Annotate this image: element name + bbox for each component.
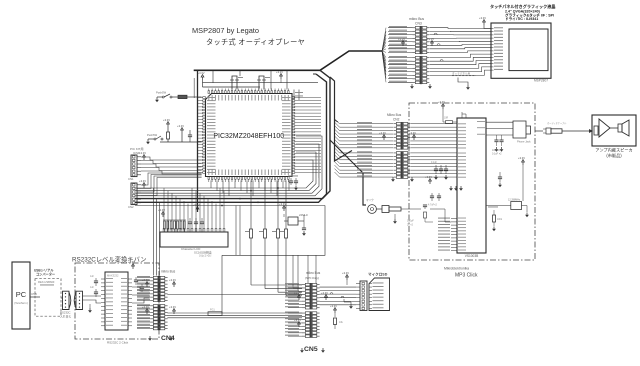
svg-text:+3.3V: +3.3V — [163, 118, 170, 122]
svg-text:ドライバIC : ILI9341: ドライバIC : ILI9341 — [505, 16, 538, 21]
svg-text:MAX3232: MAX3232 — [107, 274, 119, 278]
svg-text:+3.3V: +3.3V — [342, 271, 349, 275]
svg-text:100k: 100k — [497, 219, 503, 221]
svg-text:10R: 10R — [444, 118, 449, 120]
svg-text:+3.3V: +3.3V — [276, 70, 283, 74]
svg-text:100pF: 100pF — [407, 220, 414, 223]
svg-text:16文字×2行: 16文字×2行 — [199, 254, 212, 258]
svg-text:FG1: FG1 — [210, 309, 215, 312]
svg-text:+3.3V: +3.3V — [169, 305, 176, 309]
svg-text:Phone Jack: Phone Jack — [517, 140, 531, 144]
svg-text:0.1uF ×2: 0.1uF ×2 — [492, 153, 502, 156]
svg-text:0.1uF: 0.1uF — [431, 162, 437, 164]
svg-text:(市販品): (市販品) — [606, 152, 622, 159]
svg-text:+3.3V: +3.3V — [425, 175, 432, 179]
svg-text:マイクロSD: マイクロSD — [368, 272, 388, 277]
svg-text:RS232C 2 Click: RS232C 2 Click — [107, 341, 129, 345]
svg-text:+3.3V: +3.3V — [139, 151, 146, 155]
svg-text:+3.3V: +3.3V — [177, 124, 184, 128]
svg-text:REX-USB60F: REX-USB60F — [38, 280, 55, 284]
svg-text:入れ替え: 入れ替え — [60, 315, 71, 319]
svg-text:+3.3V: +3.3V — [379, 131, 386, 135]
svg-text:+3.3V: +3.3V — [142, 305, 149, 309]
svg-text:24MHz: 24MHz — [299, 213, 308, 217]
svg-text:2k ×2: 2k ×2 — [407, 224, 414, 227]
svg-text:MikroElektronika: MikroElektronika — [444, 267, 469, 271]
svg-text:CN5: CN5 — [304, 346, 318, 353]
svg-text:マイク: マイク — [366, 198, 374, 202]
svg-text:mikro Bus: mikro Bus — [409, 17, 424, 21]
svg-text:mikro Bus: mikro Bus — [161, 270, 176, 274]
svg-text:コンバーター: コンバーター — [36, 272, 55, 277]
svg-text:mikro Bus: mikro Bus — [306, 271, 321, 275]
svg-text:CN4: CN4 — [161, 335, 175, 342]
svg-text:PIC32MZ2048EFH100: PIC32MZ2048EFH100 — [213, 133, 284, 140]
svg-text:+3.3V: +3.3V — [198, 71, 205, 75]
svg-text:CN2: CN2 — [128, 205, 134, 209]
svg-text:Mikro Bus: Mikro Bus — [387, 113, 402, 117]
svg-text:1uF: 1uF — [90, 287, 95, 289]
svg-text:+3.3V: +3.3V — [479, 16, 486, 20]
svg-text:MSP2807 by Legato: MSP2807 by Legato — [192, 26, 259, 35]
svg-text:+3.3V: +3.3V — [294, 318, 301, 322]
svg-text:CN1: CN1 — [128, 177, 134, 181]
svg-text:+3.3V: +3.3V — [169, 278, 176, 282]
svg-text:1uF: 1uF — [90, 276, 95, 278]
svg-text:+3.3V: +3.3V — [409, 131, 416, 135]
svg-text:+3.3V: +3.3V — [518, 156, 525, 160]
svg-text:+3.3V: +3.3V — [438, 100, 445, 104]
svg-text:+3.3V: +3.3V — [330, 304, 337, 308]
svg-text:USB: USB — [31, 292, 37, 296]
svg-text:12.288MHz: 12.288MHz — [508, 199, 521, 202]
svg-text:+3.3V: +3.3V — [398, 37, 405, 41]
svg-text:PushSW: PushSW — [147, 133, 158, 137]
svg-text:+3.3V: +3.3V — [139, 179, 146, 183]
svg-text:MP3 Click: MP3 Click — [455, 273, 478, 279]
svg-text:タッチ式 オーディオプレーヤ: タッチ式 オーディオプレーヤ — [206, 38, 305, 47]
svg-text:タッチパネル用: タッチパネル用 — [452, 72, 471, 76]
svg-text:VS1003B: VS1003B — [465, 254, 478, 258]
svg-text:PushSW: PushSW — [156, 91, 167, 95]
svg-text:CN3: CN3 — [415, 22, 422, 26]
svg-text:(TeraTerm): (TeraTerm) — [14, 301, 28, 305]
svg-text:4.7uF×2: 4.7uF×2 — [428, 204, 438, 207]
svg-text:+3.3V: +3.3V — [128, 260, 135, 264]
svg-text:+3.3V: +3.3V — [427, 37, 434, 41]
svg-text:+3.3V: +3.3V — [294, 291, 301, 295]
svg-text:CN2: CN2 — [393, 118, 400, 122]
svg-text:PC: PC — [16, 290, 27, 299]
svg-text:MSP2807: MSP2807 — [534, 79, 548, 83]
svg-text:(SPI Only): (SPI Only) — [305, 276, 319, 280]
svg-text:+3.3V: +3.3V — [142, 278, 149, 282]
svg-text:RS232Cレベル変換キバン: RS232Cレベル変換キバン — [72, 255, 147, 264]
svg-text:タッチパネル付きグラフィック液晶: タッチパネル付きグラフィック液晶 — [490, 3, 555, 9]
